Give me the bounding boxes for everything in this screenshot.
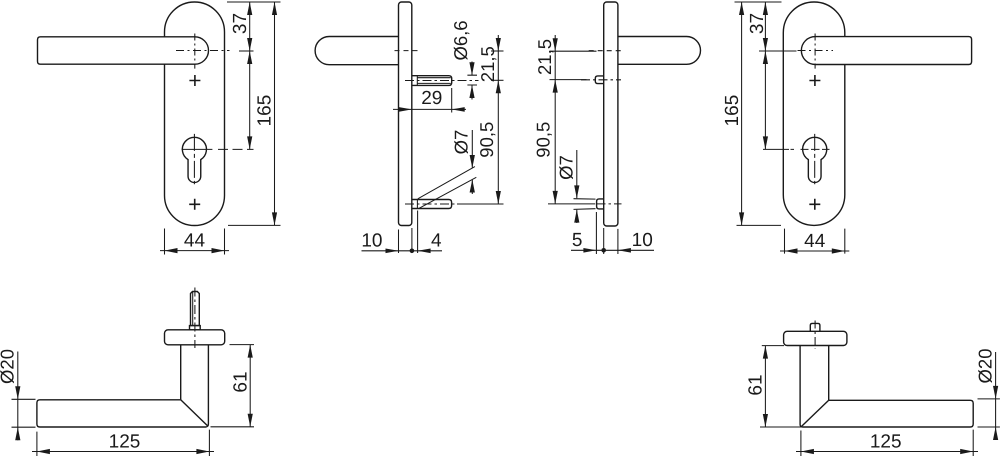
- dimension 5 and 10 line C: [571, 249, 654, 251]
- svg-text:5: 5: [572, 230, 583, 251]
- dimension 125 line F: [796, 451, 978, 453]
- grip bar F: [802, 400, 973, 427]
- dimension 44 extension lines D: [785, 229, 845, 254]
- handle centerline extension D: [759, 50, 797, 52]
- dimension 61 line E: [249, 345, 251, 427]
- dimension 37 line A: [249, 2, 251, 51]
- euro profile cylinder cutout A: [182, 137, 206, 182]
- svg-text:10: 10: [632, 230, 653, 251]
- svg-text:21,5: 21,5: [477, 46, 498, 82]
- backplate edge view B: [399, 2, 412, 226]
- dimension 29 extension line B: [451, 88, 453, 113]
- handle neck E: [181, 345, 209, 427]
- upper stud centerline C: [581, 79, 621, 81]
- lever handle bar D: [801, 37, 971, 65]
- svg-text:125: 125: [870, 432, 902, 453]
- svg-text:Ø7: Ø7: [450, 130, 471, 155]
- bottom extension lines C: [596, 212, 618, 254]
- dimension handle-to-cylinder line D: [764, 51, 766, 149]
- dimension 37 line D: [764, 2, 766, 51]
- upper screw position cross D: [809, 75, 820, 86]
- stud shank division line B: [416, 76, 418, 86]
- svg-text:Ø7: Ø7: [555, 155, 576, 180]
- handle neck F: [800, 346, 829, 428]
- spindle square pin E: [191, 292, 200, 326]
- grip bar E: [37, 400, 207, 427]
- cylinder horizontal centerline D: [763, 148, 789, 150]
- cylinder vertical centerline A: [193, 134, 195, 184]
- svg-text:Ø20: Ø20: [0, 349, 18, 384]
- svg-text:44: 44: [804, 231, 826, 252]
- svg-text:4: 4: [431, 230, 442, 251]
- spindle edge line E: [192, 292, 194, 326]
- dimension 90,5 line B: [497, 80, 499, 204]
- svg-text:Ø6,6: Ø6,6: [450, 20, 471, 60]
- lower stud centerline extension C: [548, 203, 595, 205]
- handle axis centerline B: [395, 50, 422, 52]
- spindle centerline F: [814, 321, 816, 349]
- lower fixing stud B: [412, 200, 452, 209]
- dimension diameter 20 line E: [17, 352, 19, 441]
- dimension handle-to-cylinder line A: [249, 51, 251, 149]
- upper stud centerline B: [405, 80, 479, 82]
- dimension 44 line A: [160, 250, 229, 252]
- svg-text:37: 37: [747, 13, 768, 34]
- handle axis horizontal centerline A: [176, 50, 230, 52]
- dimension 29 line B: [393, 108, 466, 110]
- dimension 125 extension lines E: [37, 430, 210, 456]
- dimension 125 extension lines F: [801, 430, 973, 456]
- dimension 44 line D: [780, 250, 849, 252]
- svg-text:90,5: 90,5: [532, 122, 553, 158]
- spindle centerline E: [194, 288, 196, 349]
- handle axis horizontal centerline D: [798, 50, 834, 52]
- svg-text:90,5: 90,5: [476, 122, 497, 158]
- dimension diameter 7 leader line C: [576, 150, 578, 223]
- backplate D: [783, 2, 845, 225]
- backplate edge view C: [604, 2, 618, 226]
- lower stud centerline B: [405, 203, 457, 205]
- upper screw position cross A: [189, 75, 200, 86]
- lever grip side view B: [315, 37, 399, 65]
- dimension 90,5 line C: [554, 80, 556, 204]
- miter seam line E: [181, 400, 208, 426]
- svg-text:61: 61: [230, 371, 251, 392]
- svg-text:61: 61: [746, 374, 767, 395]
- dimension 10 and 4 line B: [362, 250, 443, 252]
- lower screw position cross A: [189, 199, 200, 210]
- dimension diameter 20 extension lines E: [12, 399, 36, 427]
- cylinder horizontal centerline A: [182, 148, 213, 150]
- bottom extension lines B: [399, 211, 418, 254]
- svg-text:165: 165: [722, 95, 743, 127]
- euro profile cylinder cutout D: [803, 137, 827, 182]
- upper fixing stud M6 B: [412, 76, 452, 86]
- dimension diameter 20 extension lines F: [978, 399, 1000, 427]
- spindle stub F: [810, 323, 820, 331]
- svg-text:Ø20: Ø20: [974, 349, 995, 384]
- lower stud centerline C: [597, 203, 622, 205]
- top extension line D: [735, 1, 782, 3]
- handle centerline extension C: [550, 50, 597, 52]
- backplate A: [165, 2, 225, 226]
- dimension 21,5 line B: [497, 35, 499, 80]
- dimension 165 line D: [741, 2, 743, 225]
- svg-text:21,5: 21,5: [534, 39, 555, 75]
- svg-text:29: 29: [421, 88, 442, 109]
- svg-text:10: 10: [361, 230, 382, 251]
- dimension 165 line A: [274, 2, 276, 225]
- dimension 44 extension lines A: [165, 229, 225, 255]
- horizontal extension lines diameter 7 C: [574, 199, 596, 210]
- upper fixing stud C: [595, 76, 603, 84]
- stud thread core lines B: [417, 78, 450, 84]
- lever grip side view C: [618, 37, 701, 65]
- dimension 61 extension lines E: [211, 345, 255, 427]
- dimension 21,5 line C: [554, 35, 556, 80]
- dimension 61 line F: [764, 346, 766, 427]
- handle axis vertical centerline D: [814, 34, 816, 69]
- lower screw position cross D: [809, 199, 820, 210]
- svg-text:165: 165: [255, 95, 276, 127]
- rose bearing plate F: [784, 331, 847, 345]
- top extension line A: [227, 1, 281, 3]
- lower stud centerline extension B: [457, 203, 504, 205]
- bottom extension line D: [737, 224, 782, 226]
- lever handle bar A: [38, 37, 209, 64]
- cylinder vertical centerline D: [814, 134, 816, 184]
- svg-text:37: 37: [230, 13, 251, 34]
- svg-text:125: 125: [109, 432, 141, 453]
- dimension diameter 20 line F: [995, 352, 997, 440]
- dimension diameter 6,6 leader B: [471, 62, 473, 100]
- upper stud centerline extension C: [550, 79, 587, 81]
- upper stud centerline extension B: [491, 79, 504, 81]
- spindle collar E: [190, 326, 201, 330]
- miter seam line F: [801, 400, 828, 426]
- handle axis vertical centerline A: [194, 34, 196, 69]
- oblique extension lines diameter 7 B: [418, 167, 477, 209]
- lower fixing stud C: [597, 199, 604, 209]
- dimension 125 line E: [32, 451, 214, 453]
- dimension 61 extension lines F: [760, 346, 802, 427]
- handle centerline extension A: [239, 50, 254, 52]
- lower stud division line B: [416, 200, 418, 209]
- handle axis centerline C: [589, 50, 622, 52]
- svg-text:44: 44: [184, 231, 206, 252]
- rose bearing plate E: [165, 330, 225, 345]
- dimension diameter 7 leader line B: [471, 130, 473, 194]
- bottom extension line A: [228, 224, 281, 226]
- handle centerline extension for 21,5 B: [491, 50, 504, 52]
